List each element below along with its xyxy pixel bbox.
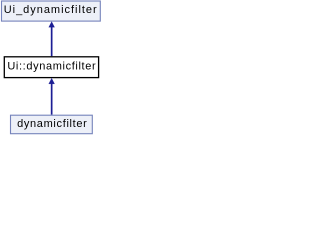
svg-text:dynamicfilter: dynamicfilter (17, 118, 87, 130)
arrowhead 1 (49, 22, 55, 28)
inheritance arrow: dynamicfilter to Ui::dynamicfilter (49, 78, 55, 114)
class box Ui_dynamicfilter (2, 1, 101, 21)
svg-text:Ui::dynamicfilter: Ui::dynamicfilter (7, 60, 96, 72)
class box Ui::dynamicfilter (current) (4, 57, 98, 78)
edge line 1 (51, 27, 53, 56)
edge line 2 (51, 84, 53, 115)
class box dynamicfilter (11, 115, 93, 134)
arrowhead 2 (49, 78, 55, 84)
inheritance arrow: Ui::dynamicfilter to Ui_dynamicfilter (49, 22, 55, 57)
background (0, 0, 102, 136)
svg-text:Ui_dynamicfilter: Ui_dynamicfilter (4, 4, 98, 16)
